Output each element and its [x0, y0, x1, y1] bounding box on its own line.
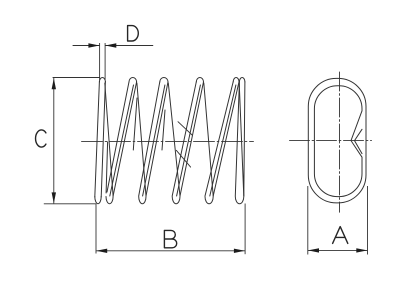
wire end chevron outer [351, 111, 362, 157]
break mark upper [178, 122, 192, 135]
wire leg T2 right inner [110, 85, 134, 196]
wire leg T1 left [95, 82, 100, 198]
wire leg T2 left [107, 82, 129, 192]
label A [333, 227, 348, 244]
dimension line D right part [105, 45, 153, 47]
extension line B left [95, 204, 97, 254]
arrow A left (pointing left) [308, 248, 319, 252]
wire leg T4 left [172, 82, 196, 196]
wire leg T2 right outer [113, 82, 137, 196]
coil top arc T4 [196, 78, 203, 82]
wire leg T5b right [244, 82, 245, 196]
arrow B right (pointing right) [234, 249, 245, 253]
coil bottom arc U4 [172, 197, 180, 204]
coil bottom arc U5 [205, 197, 213, 204]
wire leg A5 [239, 83, 244, 196]
coil stub near break T2 zone [133, 98, 137, 150]
dimension line D left part [73, 45, 100, 47]
label C [36, 130, 46, 147]
wire leg A3 [168, 83, 180, 196]
coil top arc T5a [233, 78, 239, 83]
wire leg T1 right [101, 82, 105, 198]
outer contour (obround) [308, 78, 366, 202]
coil top arc T1 [99, 78, 105, 82]
extension line D right [104, 43, 106, 80]
wire leg A1 [105, 83, 113, 196]
coil stub near break T3 zone [162, 110, 165, 150]
arrow D left (pointing right) [88, 43, 99, 47]
coil bottom arc U3 [139, 197, 146, 204]
wire leg T3 left [139, 82, 160, 196]
wire leg T4 right inner [177, 85, 201, 196]
coil bottom arc U2 [106, 197, 113, 204]
wire leg T5b left [235, 82, 239, 196]
arrow D right (pointing left) [105, 43, 116, 47]
vertical centerline of end view [339, 72, 341, 212]
extension line D left [99, 43, 101, 80]
wire leg T3 right outer [146, 82, 168, 196]
wire leg U2 left edge [106, 142, 108, 193]
break mark lower [176, 150, 190, 167]
inner contour with gap at wire end [314, 86, 362, 197]
wire leg A2 [137, 83, 146, 196]
extension line B right [244, 204, 246, 255]
wire leg T3 right inner [143, 85, 165, 196]
coil bottom arc U1 [95, 197, 101, 204]
extension line A left [307, 186, 309, 255]
dimension line C [53, 78, 55, 203]
arrow C top (pointing up) [52, 78, 56, 89]
coil top arc T5b [239, 78, 245, 82]
centerline of spring side view [82, 140, 254, 142]
arrow C bottom (pointing down) [52, 192, 56, 203]
arrow A right (pointing right) [356, 248, 367, 252]
wire leg T5a left [205, 82, 233, 196]
label D [128, 26, 139, 41]
dimension line B [96, 250, 245, 252]
extension line C bottom [44, 203, 97, 205]
wire leg T5a right inner [210, 85, 236, 196]
horizontal centerline of end view [290, 140, 372, 142]
wire leg T4 right outer [180, 82, 204, 196]
coil top arc T2 [129, 77, 137, 82]
wire leg A4 [204, 83, 213, 196]
extension line C top [53, 77, 100, 79]
coil bottom arc U6 [235, 197, 244, 204]
arrow B left (pointing left) [96, 249, 107, 253]
wire leg T5a right outer [213, 82, 239, 196]
wire end chevron inner [355, 129, 363, 153]
dimension line A [308, 249, 368, 251]
extension line A right [367, 186, 369, 255]
label B [164, 230, 176, 247]
coil top arc T3 [160, 78, 168, 82]
